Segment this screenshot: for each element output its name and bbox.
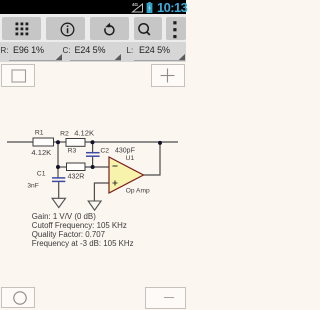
4G label: [132, 2, 138, 7]
junction node A: [56, 140, 60, 144]
spinner R underline: [9, 60, 62, 61]
svg-text:R3: R3: [68, 148, 77, 155]
svg-text:Op Amp: Op Amp: [126, 188, 150, 195]
clock 10:13: [157, 0, 187, 15]
toolbar button grid: [2, 17, 41, 41]
spinner C label: [63, 46, 71, 55]
toolbar button search: [134, 17, 162, 41]
wire C2 bottom lead: [92, 156, 94, 167]
results text: [32, 213, 134, 249]
zoom button fit (top-left): [1, 64, 35, 87]
wire R1-R2: [54, 141, 67, 143]
capacitor C2: [86, 153, 100, 157]
junction R3 left: [56, 165, 60, 169]
svg-text:4.12K: 4.12K: [31, 148, 51, 157]
spinner R label: [1, 46, 9, 55]
svg-text:432R: 432R: [68, 174, 85, 181]
junction output: [158, 141, 162, 145]
wire input: [7, 141, 33, 143]
action bar: [0, 14, 186, 42]
wire C1 bottom: [58, 181, 60, 198]
signal triangle icon: [131, 3, 144, 13]
wire R3 to opamp: [85, 166, 109, 168]
op-amp U1: [109, 157, 144, 193]
zoom button 1:1 (bottom-left): [1, 287, 35, 308]
spinner L label: [127, 46, 134, 55]
battery charging icon: [146, 2, 153, 13]
toolbar button info: [46, 17, 85, 41]
resistor R2: [66, 139, 85, 147]
spinner C value: [75, 45, 106, 55]
ground opamp: [88, 201, 101, 210]
wire C2 top lead: [92, 142, 94, 153]
svg-text:4.12K: 4.12K: [74, 129, 94, 138]
wire node A to R3: [58, 166, 67, 168]
status bar: [0, 0, 186, 14]
capacitor C1: [52, 178, 65, 182]
spinner L underline: [134, 60, 185, 61]
spinner R caret: [55, 54, 62, 61]
spinner R value: [13, 45, 44, 55]
svg-text:430pF: 430pF: [115, 148, 135, 155]
junction C2 bottom: [91, 165, 95, 169]
resistor R3: [67, 163, 86, 171]
junction C2 top: [91, 140, 95, 144]
svg-text:U1: U1: [126, 155, 135, 162]
opamp minus: [113, 165, 118, 167]
zoom button plus (top-right): [151, 64, 185, 87]
toolbar button reset: [90, 17, 129, 41]
zoom button minus (bottom-right): [145, 287, 186, 309]
wire output feedback: [144, 142, 161, 175]
svg-text:R2: R2: [60, 131, 69, 138]
spinner row: [0, 42, 186, 62]
wire node A vertical: [57, 142, 59, 178]
spinner L caret: [178, 54, 185, 61]
spinner L value: [139, 45, 170, 55]
toolbar button overflow: [166, 17, 186, 41]
svg-text:C2: C2: [100, 148, 109, 155]
svg-text:R1: R1: [35, 129, 44, 136]
ground C1: [52, 198, 65, 207]
wire opamp plus input: [94, 183, 109, 201]
spinner C caret: [114, 54, 121, 61]
resistor R1: [33, 138, 54, 146]
opamp plus: [113, 181, 118, 186]
spinner C underline: [70, 60, 121, 61]
svg-text:C1: C1: [37, 171, 46, 178]
wire R2-output: [85, 141, 178, 143]
svg-text:3nF: 3nF: [27, 183, 38, 190]
